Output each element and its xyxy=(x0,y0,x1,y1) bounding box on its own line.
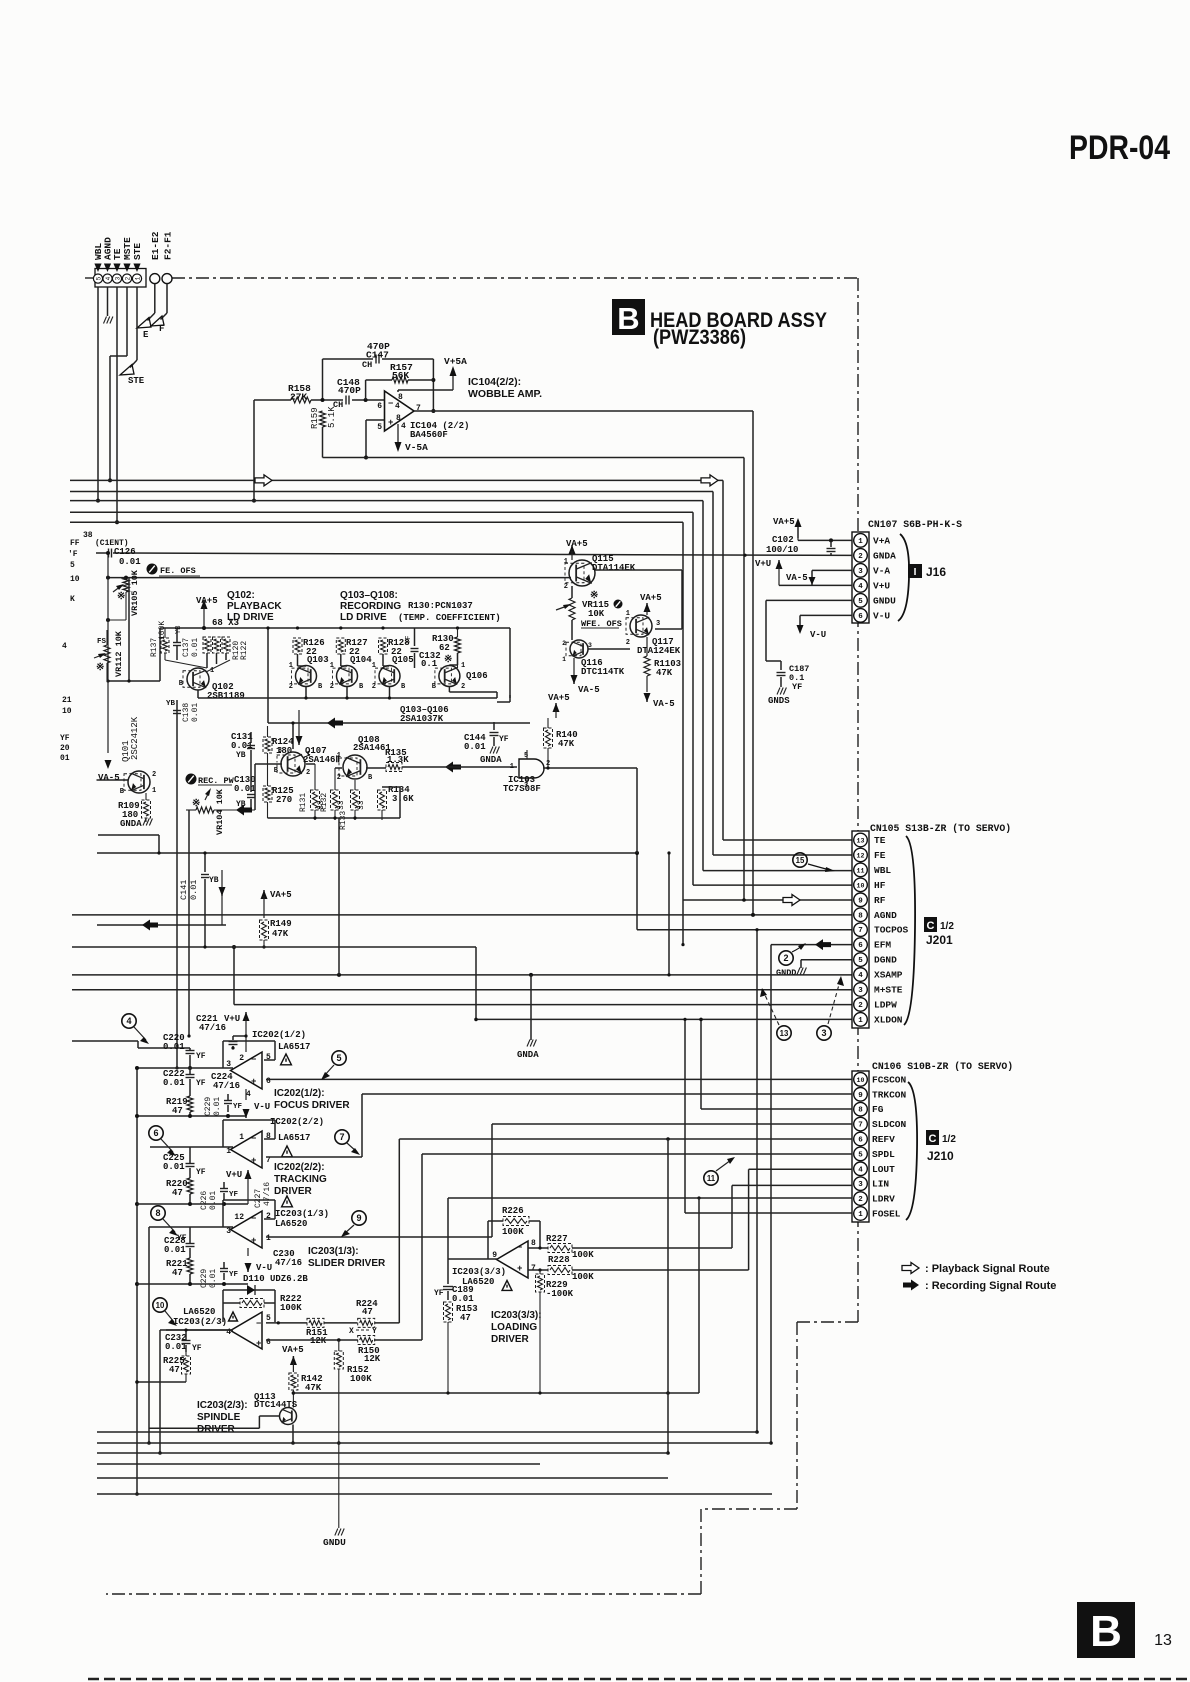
svg-text:10: 10 xyxy=(62,707,72,716)
svg-text:4: 4 xyxy=(858,583,863,591)
resistor R152 100K column to GNDU xyxy=(334,1340,372,1528)
wire LD supply rail xyxy=(160,626,510,698)
label Q103-Q108 RECORDING LD DRIVE xyxy=(340,590,401,623)
svg-text:YF: YF xyxy=(499,735,509,744)
capacitor C222 C224 network xyxy=(137,1068,240,1091)
resistor R124 180 xyxy=(263,726,294,760)
wire loading output xyxy=(448,1258,498,1260)
callout circled 6 xyxy=(149,1126,176,1156)
svg-text:F2-F1: F2-F1 xyxy=(163,231,174,260)
svg-text:YB: YB xyxy=(236,751,246,760)
resistor R222 100K xyxy=(223,1290,302,1322)
svg-text:−: − xyxy=(517,1243,522,1253)
svg-text:GNDU: GNDU xyxy=(873,595,896,606)
svg-text:3: 3 xyxy=(858,987,863,995)
resistor R219 47 C223 xyxy=(137,1088,246,1118)
resistor R1103 47K xyxy=(644,637,681,692)
power VA+5 Q117 xyxy=(640,593,662,615)
svg-text:0.01: 0.01 xyxy=(209,1269,218,1288)
svg-text:XSAMP: XSAMP xyxy=(874,970,903,981)
bottom scan edge line xyxy=(88,1678,1190,1681)
wire R158 input from bus xyxy=(252,400,256,503)
svg-text:C102: C102 xyxy=(772,535,794,545)
brace CN105 xyxy=(904,836,915,1025)
svg-text:4: 4 xyxy=(62,642,67,651)
wire from wobble rail down xyxy=(742,458,746,902)
wire LOUT from R228 xyxy=(749,1169,852,1270)
wire bottom bus 1 xyxy=(97,1431,757,1433)
capacitor C147 470P feedback xyxy=(323,341,436,413)
svg-text:−: − xyxy=(251,1055,256,1065)
svg-text:R131: R131 xyxy=(299,793,308,812)
svg-text:62: 62 xyxy=(439,643,450,653)
svg-text:1: 1 xyxy=(266,1234,271,1243)
svg-text:XLDON: XLDON xyxy=(874,1014,903,1025)
svg-text:YF: YF xyxy=(177,1234,187,1243)
svg-text:1: 1 xyxy=(858,538,863,546)
wire bottom bus 4 xyxy=(97,1463,540,1465)
wire E test point xyxy=(137,284,155,340)
svg-text:DTC114TK: DTC114TK xyxy=(581,667,625,677)
svg-text:E: E xyxy=(143,330,149,340)
brace CN106 xyxy=(906,1082,917,1220)
svg-text:47: 47 xyxy=(172,1106,183,1116)
ground GNDA left xyxy=(120,819,152,830)
svg-text:GNDD: GNDD xyxy=(776,968,796,978)
wire left vertical bus B xyxy=(115,287,119,524)
wire Q106 loop right xyxy=(497,695,510,702)
label IC104(2/2) BA4560F xyxy=(410,421,469,440)
svg-text:6: 6 xyxy=(858,942,863,950)
svg-text:38: 38 xyxy=(83,531,93,540)
svg-text:VA-5: VA-5 xyxy=(578,685,600,695)
svg-text:11: 11 xyxy=(707,1174,716,1183)
potentiometer VR112 10K xyxy=(94,630,124,680)
svg-text:2: 2 xyxy=(124,276,131,280)
svg-text:12K: 12K xyxy=(310,1336,327,1346)
svg-text:SPDL: SPDL xyxy=(872,1149,895,1160)
recording arrow down near C141 xyxy=(219,870,226,925)
svg-text:0.01: 0.01 xyxy=(119,557,141,567)
svg-text:2: 2 xyxy=(372,683,376,691)
label CN105 S13B-ZR (TO SERVO) xyxy=(870,823,1011,834)
capacitor C144 0.01 YF GNDA xyxy=(464,722,509,765)
callout circled 8 xyxy=(151,1206,178,1236)
resistor network R120 R122 C137 at Q102 xyxy=(173,626,249,660)
transistor Q117 DTA124EK xyxy=(626,610,681,656)
power VA+5 spindle xyxy=(282,1345,304,1372)
svg-text:8: 8 xyxy=(858,1107,863,1115)
svg-text:12: 12 xyxy=(857,852,865,859)
svg-text:TRKCON: TRKCON xyxy=(872,1089,907,1100)
svg-text:0.01: 0.01 xyxy=(191,703,200,722)
label CN107 S6B-PH-K-S xyxy=(868,519,962,530)
svg-text:0.01: 0.01 xyxy=(234,784,256,794)
wire FG from top xyxy=(699,1018,852,1109)
svg-text:2: 2 xyxy=(461,683,465,691)
svg-text:R228: R228 xyxy=(548,1255,570,1265)
wire M+STE long xyxy=(72,989,852,991)
svg-text:1: 1 xyxy=(134,276,141,280)
svg-text:1: 1 xyxy=(330,662,334,670)
svg-text:6: 6 xyxy=(858,613,863,621)
svg-text:※: ※ xyxy=(444,654,452,666)
svg-text:47: 47 xyxy=(172,1188,183,1198)
svg-text:FE: FE xyxy=(874,850,886,861)
svg-text:2SB1189: 2SB1189 xyxy=(207,691,245,701)
svg-text:VA+5: VA+5 xyxy=(282,1345,304,1355)
resistor R153 47 xyxy=(444,1302,478,1393)
svg-text:5: 5 xyxy=(70,561,75,570)
svg-text:LDRV: LDRV xyxy=(872,1194,895,1205)
wire recording line left arrow xyxy=(97,920,226,931)
svg-text:B: B xyxy=(1090,1607,1122,1656)
svg-text:V+U: V+U xyxy=(755,559,771,569)
svg-text:47/16: 47/16 xyxy=(263,1182,272,1206)
transistor Q101 2SC2412K xyxy=(120,716,156,796)
svg-text:RECORDING: RECORDING xyxy=(340,601,401,612)
callout circled 15 WBL xyxy=(793,853,835,872)
svg-text:0.01: 0.01 xyxy=(209,1191,218,1210)
label IC203(1/3) LA6520 xyxy=(275,1196,329,1229)
svg-text:TE: TE xyxy=(874,835,886,846)
capacitor C126 0.01 xyxy=(96,547,141,567)
wire TOCPOS xyxy=(97,851,852,930)
svg-text:2: 2 xyxy=(337,774,341,782)
svg-text:5: 5 xyxy=(858,957,863,965)
wire bottom loop 1393 xyxy=(293,1198,699,1395)
feedback loop tracking xyxy=(223,1120,275,1147)
svg-text:−: − xyxy=(256,1319,261,1329)
svg-text:LIN: LIN xyxy=(872,1179,889,1190)
label C 1/2 J210 xyxy=(926,1130,956,1163)
ground GNDD xyxy=(776,968,806,979)
svg-text:TOCPOS: TOCPOS xyxy=(874,925,909,936)
svg-text:6: 6 xyxy=(266,1077,271,1086)
svg-text:FF: FF xyxy=(70,539,80,548)
svg-text:B: B xyxy=(617,301,639,336)
label 68 X3 xyxy=(212,618,239,628)
power V+5A xyxy=(398,356,467,392)
svg-text:V+U: V+U xyxy=(224,1014,240,1024)
label C 1/2 J201 xyxy=(924,917,954,947)
wire bottom rail wobble xyxy=(323,457,745,459)
capacitor C148 470P xyxy=(321,377,385,410)
wire FE.OFS line xyxy=(106,576,569,580)
svg-text:V-U: V-U xyxy=(873,610,890,621)
svg-text:C141: C141 xyxy=(179,880,189,900)
svg-text:DGND: DGND xyxy=(874,955,897,966)
svg-text:DRIVER: DRIVER xyxy=(197,1424,236,1435)
wire jog 835 xyxy=(98,835,161,855)
resistor R228 100K xyxy=(528,1255,749,1282)
transistor Q108 2SA1461 xyxy=(337,735,392,782)
svg-text:IC203(3/3): IC203(3/3) xyxy=(452,1267,506,1277)
wires Q102 bias xyxy=(165,653,230,672)
svg-text:47: 47 xyxy=(169,1365,180,1375)
power V-5A IC104 xyxy=(395,424,429,453)
svg-text:YF: YF xyxy=(196,1079,206,1088)
svg-text:: Recording Signal Route: : Recording Signal Route xyxy=(925,1280,1056,1292)
svg-text:YF: YF xyxy=(792,682,802,692)
feedback loop slider xyxy=(223,1200,275,1227)
callout circled 9 xyxy=(341,1211,366,1237)
transistor Q113 DTC144TS xyxy=(254,1392,298,1425)
callout circled 5 xyxy=(321,1051,346,1080)
wire VR105 box xyxy=(106,578,160,683)
resistor R109 180 xyxy=(118,793,151,822)
svg-text:47/16: 47/16 xyxy=(213,1081,240,1091)
wire pin2 jog xyxy=(108,287,127,482)
svg-text:2: 2 xyxy=(858,553,863,561)
svg-text:33: 33 xyxy=(337,800,346,810)
svg-text:R159: R159 xyxy=(310,407,320,429)
wire bottom bus 3 xyxy=(97,1452,668,1454)
transistor Q116 DTC114TK xyxy=(562,640,625,677)
svg-text:+: + xyxy=(388,418,393,428)
svg-text:DTA114EK: DTA114EK xyxy=(592,563,636,573)
wire op-amp plus input xyxy=(364,420,385,460)
svg-text:V-U: V-U xyxy=(810,630,826,640)
svg-text:4: 4 xyxy=(105,276,112,280)
svg-text:47: 47 xyxy=(172,1268,183,1278)
capacitor C132 0.1 YF xyxy=(405,628,441,669)
wire Q113 emitter to bus xyxy=(291,1425,295,1445)
transistor Q102 2SB1189 xyxy=(179,667,245,701)
svg-text:2SC2412K: 2SC2412K xyxy=(130,716,140,760)
svg-text:47K: 47K xyxy=(558,739,575,749)
wire F test point xyxy=(151,284,167,334)
svg-text:1: 1 xyxy=(626,610,630,618)
svg-text:VA+5: VA+5 xyxy=(566,539,588,549)
capacitor C232 0.01 YF xyxy=(165,1330,233,1353)
resistor R140 47K xyxy=(544,718,578,768)
svg-text:YF: YF xyxy=(60,734,70,743)
wire bottom bus 6 xyxy=(97,1493,772,1495)
wire bottom bus 2 xyxy=(97,1442,771,1444)
callout circled 2 EFM xyxy=(779,943,806,965)
svg-text:WBL: WBL xyxy=(874,865,891,876)
svg-text:5: 5 xyxy=(524,752,528,760)
op-amp IC202(1/2) focus xyxy=(226,1052,271,1099)
wire vertical group A xyxy=(667,851,670,976)
svg-text:56K: 56K xyxy=(392,370,409,381)
svg-text:0.01: 0.01 xyxy=(163,1042,185,1052)
ground GNDU xyxy=(323,1529,346,1549)
resistor R134 3.6K xyxy=(378,785,415,810)
wire tracking output TRKCON xyxy=(266,1094,852,1157)
svg-text:100K: 100K xyxy=(502,1227,524,1237)
resistor R227 100K xyxy=(528,1234,732,1260)
wire LDRV top xyxy=(448,1196,852,1259)
ground top-left pin4 xyxy=(104,287,113,324)
power VA+5 Q115 xyxy=(566,539,588,560)
wire bus TE xyxy=(70,480,852,840)
svg-text:−: − xyxy=(251,1214,256,1224)
svg-text:IC203(1/3): IC203(1/3) xyxy=(275,1209,329,1219)
label Q102 PLAYBACK LD DRIVE xyxy=(227,590,282,623)
svg-text:−: − xyxy=(388,399,393,409)
svg-text:5: 5 xyxy=(266,1314,271,1323)
svg-text:CN105 S13B-ZR (TO SERVO): CN105 S13B-ZR (TO SERVO) xyxy=(870,823,1011,834)
svg-text:J16: J16 xyxy=(926,565,946,579)
callout circled 13 dashed arrow xyxy=(760,988,791,1040)
wire left vertical bus A xyxy=(96,287,100,503)
svg-text:15: 15 xyxy=(796,856,805,865)
svg-text:2: 2 xyxy=(306,769,310,777)
svg-text:R130:PCN1037: R130:PCN1037 xyxy=(408,601,473,611)
playback route arrow on TE bus xyxy=(255,475,718,486)
recording arrow down to Q107 xyxy=(296,710,303,745)
resistor R220 47 C226 C227 xyxy=(137,1170,272,1210)
svg-text:8: 8 xyxy=(531,1239,536,1248)
wire base bus LD with recording arrow xyxy=(266,626,530,749)
svg-text:3: 3 xyxy=(858,568,863,576)
svg-text:LOADING: LOADING xyxy=(491,1322,537,1333)
svg-text:2: 2 xyxy=(564,583,568,591)
svg-text:C229: C229 xyxy=(200,1269,209,1288)
svg-text:PDR-04: PDR-04 xyxy=(1069,129,1170,167)
svg-text:IC202(1/2):: IC202(1/2): xyxy=(274,1088,325,1099)
label IC202(2/2) LA6517 xyxy=(270,1117,324,1157)
wire GNDA pin2 xyxy=(113,553,852,557)
callout circled 10 xyxy=(153,1298,177,1326)
power VA-5 left column xyxy=(98,551,120,783)
power VA+5 R149 xyxy=(261,890,292,918)
svg-text:PLAYBACK: PLAYBACK xyxy=(227,601,282,612)
resistor R142 47K xyxy=(289,1373,323,1408)
svg-text:4: 4 xyxy=(401,422,406,431)
potentiometer VR105 10K xyxy=(106,569,140,622)
capacitor C141 0.01 YB xyxy=(179,866,219,900)
wire from IC104 output down xyxy=(752,411,754,915)
svg-text:VR112 10K: VR112 10K xyxy=(114,630,124,677)
label IC203(3/3) LOADING DRIVER xyxy=(491,1310,542,1345)
svg-text:8: 8 xyxy=(398,393,403,402)
svg-text:1: 1 xyxy=(562,656,566,663)
svg-text:IC203(2/3): IC203(2/3) xyxy=(173,1317,227,1327)
svg-text:YF: YF xyxy=(192,1344,202,1353)
svg-text:5: 5 xyxy=(858,598,863,606)
svg-text:IC202(1/2): IC202(1/2) xyxy=(252,1030,306,1040)
svg-text:LA6517: LA6517 xyxy=(278,1042,310,1052)
capacitor C189 0.01 YF xyxy=(434,1259,474,1304)
callout circled 11 xyxy=(704,1157,735,1185)
svg-text:-100K: -100K xyxy=(546,1289,574,1299)
power V+U VA-5 pins 3-4 xyxy=(755,559,852,585)
svg-text:10: 10 xyxy=(156,1301,165,1310)
potentiometer VR115 10K WFE.OFS xyxy=(556,586,623,640)
svg-text:270: 270 xyxy=(276,795,292,805)
test point F2-F1 xyxy=(162,231,174,283)
wire REFV xyxy=(399,1137,852,1141)
svg-text:13: 13 xyxy=(780,1029,789,1038)
wire slider output SLDCON xyxy=(266,1124,852,1237)
wire GNDU pin5 to C187 xyxy=(766,600,852,661)
svg-text:D110 UDZ6.2B: D110 UDZ6.2B xyxy=(243,1274,308,1284)
page title PDR-04 xyxy=(1069,129,1170,167)
wire Q115 base left xyxy=(569,577,571,579)
svg-text:Q103: Q103 xyxy=(307,655,329,665)
svg-text:1: 1 xyxy=(858,1017,863,1025)
svg-text:FOSEL: FOSEL xyxy=(872,1209,901,1220)
svg-text:(PWZ3386): (PWZ3386) xyxy=(653,326,746,349)
wires Q107 Q108 network xyxy=(255,762,517,975)
svg-text:2: 2 xyxy=(783,953,788,963)
svg-text:C138: C138 xyxy=(182,703,191,722)
svg-text:VA+5: VA+5 xyxy=(773,517,795,527)
svg-text:SLDCON: SLDCON xyxy=(872,1119,907,1130)
svg-text:12K: 12K xyxy=(364,1354,381,1364)
wire long vertical 668 xyxy=(666,1139,670,1455)
svg-text:M+STE: M+STE xyxy=(874,985,903,996)
svg-text:※: ※ xyxy=(117,591,125,603)
wire focus col down xyxy=(135,1066,139,1496)
svg-text:47K: 47K xyxy=(656,668,673,678)
svg-text:2: 2 xyxy=(152,771,156,779)
svg-text:C227: C227 xyxy=(254,1189,263,1208)
svg-text:01: 01 xyxy=(60,754,70,763)
svg-text:1/2: 1/2 xyxy=(942,1134,956,1145)
svg-text:100/10: 100/10 xyxy=(766,545,798,555)
svg-text:Q105: Q105 xyxy=(392,655,414,665)
label CN106 S10B-ZR (TO SERVO) xyxy=(872,1061,1013,1072)
op-amp IC203(3/3) loading xyxy=(492,1239,536,1278)
svg-text:Q102:: Q102: xyxy=(227,590,255,601)
label IC203(3/3) LA6520 xyxy=(452,1267,512,1290)
wire bottom bus 5 xyxy=(97,1477,668,1479)
svg-text:TC7S08F: TC7S08F xyxy=(503,784,541,794)
power VA+5 CN107 xyxy=(773,517,802,540)
svg-text:47: 47 xyxy=(460,1313,471,1323)
svg-text:LA6520: LA6520 xyxy=(275,1219,307,1229)
transistor Q107 2SA146II xyxy=(274,746,340,777)
svg-text:8: 8 xyxy=(155,1208,160,1218)
wire collector bus LD xyxy=(198,687,497,700)
svg-text:VA+5: VA+5 xyxy=(640,593,662,603)
resistor R126 22 Q103 xyxy=(293,638,329,665)
svg-text:1: 1 xyxy=(239,1133,244,1142)
svg-text:IC203(3/3):: IC203(3/3): xyxy=(491,1310,542,1321)
transistor Q104 xyxy=(330,662,364,691)
svg-text:100K: 100K xyxy=(572,1272,594,1282)
svg-text:FS: FS xyxy=(97,638,107,646)
svg-text:+: + xyxy=(517,1264,522,1274)
svg-text:DRIVER: DRIVER xyxy=(491,1334,530,1345)
svg-text:C137: C137 xyxy=(182,638,191,657)
wire LDPW xyxy=(232,945,852,1005)
svg-text:VR105 10K: VR105 10K xyxy=(130,569,140,616)
svg-text:5: 5 xyxy=(336,1053,341,1063)
svg-text:SLIDER DRIVER: SLIDER DRIVER xyxy=(308,1258,386,1269)
svg-text:FG: FG xyxy=(872,1104,884,1115)
svg-text:3: 3 xyxy=(226,1227,231,1236)
svg-text:3: 3 xyxy=(821,1028,826,1038)
wire vertical group B xyxy=(681,900,684,946)
svg-text:IC203(2/3):: IC203(2/3): xyxy=(197,1400,248,1411)
svg-text:13: 13 xyxy=(1154,1632,1172,1649)
resistor R158 27K xyxy=(254,383,343,403)
svg-text:9: 9 xyxy=(858,1092,863,1100)
resistor R149 47K xyxy=(260,919,292,949)
svg-text:LOUT: LOUT xyxy=(872,1164,895,1175)
svg-text:5.1K: 5.1K xyxy=(327,406,337,428)
svg-text:STE: STE xyxy=(128,376,145,386)
svg-text:GNDS: GNDS xyxy=(768,696,790,706)
transistor Q103 xyxy=(289,662,323,691)
svg-text:5: 5 xyxy=(95,276,102,280)
wire C141 column xyxy=(203,851,206,948)
